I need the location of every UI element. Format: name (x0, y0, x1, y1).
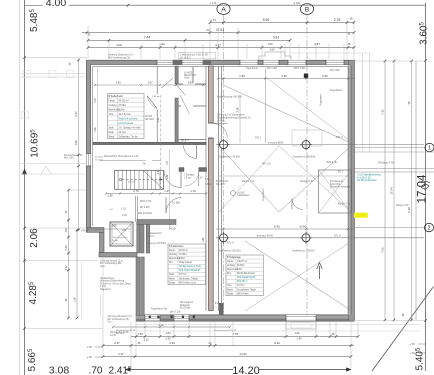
svg-text:DKR 2.76h: DKR 2.76h (140, 201, 152, 203)
svg-text:WK Verblendung CB: WK Verblendung CB (108, 56, 130, 59)
svg-text:Schlusslau, 7th dar: Schlusslau, 7th dar (119, 135, 138, 138)
svg-text:Grabkasten: Grabkasten (237, 194, 250, 197)
annotation endabdeckung (217, 97, 242, 99)
svg-text:76.08m: 76.08m (179, 254, 187, 256)
svg-text:Ger: Ger (108, 321, 112, 324)
ramp diagonals middle (219, 146, 351, 212)
svg-text:23.7cm: 23.7cm (237, 285, 245, 287)
right main dimension line (424, 3, 427, 371)
svg-text:2.47: 2.47 (114, 341, 120, 345)
left outside annotations (100, 259, 123, 268)
svg-text:4.87: 4.87 (314, 42, 320, 46)
chimney outline top (259, 52, 291, 61)
beam axis labels (218, 136, 409, 253)
svg-text:B.OPT 0.6A: B.OPT 0.6A (216, 180, 229, 183)
stair (115, 170, 164, 189)
svg-text:User: User (100, 265, 105, 268)
grabkasten circle note (231, 191, 250, 198)
svg-text:2.36: 2.36 (237, 107, 240, 112)
svg-text:1.45: 1.45 (296, 337, 302, 341)
column B1 (300, 139, 312, 151)
shaft room right (319, 170, 352, 213)
svg-text:49.225 m²: 49.225 m² (119, 99, 129, 102)
svg-text:JK + LB 3: JK + LB 3 (180, 56, 191, 59)
svg-text:Sade: Sade (169, 274, 175, 276)
svg-text:24: 24 (206, 28, 210, 32)
svg-text:8 Kellerraum: 8 Kellerraum (169, 244, 183, 248)
south-west inset wall (99, 253, 137, 258)
svg-text:Umfang: Umfang (169, 254, 178, 256)
svg-text:1.92: 1.92 (294, 331, 300, 335)
svg-text:Umfang: Umfang (227, 265, 236, 267)
dimension 3.60 (right top) (418, 21, 429, 44)
svg-text:14.30: 14.30 (110, 335, 116, 337)
column A1 (218, 139, 230, 151)
room info table 3 (8 Teilgarage) (226, 255, 264, 296)
door corridor-south arc (166, 198, 182, 214)
svg-text:10.695: 10.695 (29, 129, 40, 158)
column A2 (218, 232, 230, 244)
door lower-right of garage arc (292, 199, 303, 210)
central wall pink fill (206, 66, 213, 311)
svg-text:4.32: 4.32 (169, 341, 175, 345)
svg-text:1.52: 1.52 (137, 332, 143, 336)
svg-text:2: 2 (427, 226, 430, 232)
svg-text:abm 1.20n: abm 1.20n (170, 312, 182, 314)
svg-text:DTL 4: DTL 4 (227, 242, 234, 245)
annotation gewerk right-wing top (217, 114, 251, 123)
svg-text:23.7cm: 23.7cm (119, 132, 127, 134)
svg-text:Wand: Wand (227, 289, 234, 291)
grid axis A circle (217, 4, 230, 15)
svg-text:7 Schlage: 7 Schlage (184, 175, 195, 177)
svg-text:+ 70: + 70 (86, 355, 92, 359)
svg-text:Umkl: Umkl (184, 78, 190, 80)
svg-text:10 Fug: 10 Fug (217, 120, 225, 123)
beam line y176 (216, 176, 354, 186)
svg-text:SWF 4.78x: SWF 4.78x (326, 162, 338, 164)
svg-text:Belegnum verregeln: Belegnum verregeln (330, 186, 351, 189)
svg-text:WF 2.60x: WF 2.60x (330, 70, 341, 72)
svg-text:Verabschlung: Verabschlung (100, 277, 115, 280)
beam line axis 2 (216, 237, 424, 239)
svg-text:2.36: 2.36 (239, 74, 245, 78)
svg-text:5.07: 5.07 (94, 97, 97, 102)
svg-text:1.38: 1.38 (107, 194, 113, 198)
svg-text:Schlusslau, Tiefpkt: Schlusslau, Tiefpkt (179, 277, 198, 280)
svg-text:Fugenblech 46+: Fugenblech 46+ (151, 309, 168, 311)
svg-text:KPk OK m: KPk OK m (237, 281, 248, 283)
window sill labels west (95, 157, 104, 162)
lower-left partition walls (136, 196, 177, 316)
svg-text:6.57: 6.57 (74, 111, 78, 117)
roof overhang right (291, 53, 370, 152)
shaft box with cross (110, 222, 133, 246)
svg-text:14.32: 14.32 (239, 352, 247, 356)
svg-text:W Seite by +35 cm das ZWexx: W Seite by +35 cm das ZWexx (100, 282, 132, 285)
svg-text:WK A-Kries: WK A-Kries (237, 292, 249, 295)
svg-text:SWSange 4.78x: SWSange 4.78x (378, 163, 395, 165)
svg-text:Dade: Dade (109, 132, 115, 134)
svg-text:1.03: 1.03 (198, 177, 203, 179)
roof diagonal upper (221, 77, 353, 144)
svg-text:Gehrung Verdorf 12 m: Gehrung Verdorf 12 m (100, 259, 123, 262)
svg-text:1.26: 1.26 (74, 297, 77, 302)
svg-text:W+L:26:0: W+L:26:0 (64, 158, 75, 160)
svg-text:Grabhebene 1/92.80A: Grabhebene 1/92.80A (292, 250, 315, 253)
svg-text:D8a P.0.5/Set: D8a P.0.5/Set (138, 212, 152, 215)
svg-text:1/1.98m: 1/1.98m (172, 203, 180, 205)
svg-text:20 A-Sp.Gm: 20 A-Sp.Gm (119, 113, 131, 116)
svg-text:8.32: 8.32 (274, 225, 280, 229)
outer wall east (348, 60, 355, 320)
svg-text:06.003: 06.003 (145, 116, 153, 118)
svg-text:2.11: 2.11 (157, 169, 160, 174)
svg-text:2.36: 2.36 (281, 74, 287, 78)
dimension 10.69 (left) (29, 129, 40, 158)
svg-text:Grabhebene | 90.80A: Grabhebene | 90.80A (218, 156, 240, 159)
svg-text:Rekg.f.wk.anh.antx: Rekg.f.wk.anh.antx (119, 117, 139, 120)
top dimension row 2 (82, 3, 355, 42)
svg-text:(0.46): (0.46) (300, 225, 307, 229)
annotation top wall code (179, 53, 216, 60)
svg-text:Gehäs-raschen: Gehäs-raschen (113, 236, 129, 239)
svg-text:DALV Rgt: DALV Rgt (330, 183, 340, 186)
partition wall x157 with door (156, 66, 158, 144)
svg-text:Gehrung Infections III m: Gehrung Infections III m (108, 315, 133, 318)
svg-text:a 4.01: a 4.01 (294, 3, 301, 5)
svg-text:Fanne: Fanne (169, 250, 176, 252)
svg-text:FD 1: FD 1 (338, 171, 344, 173)
svg-text:2.26m: 2.26m (179, 258, 185, 260)
right inner dimension chains (381, 60, 413, 322)
svg-text:1.47: 1.47 (164, 189, 170, 193)
right wing west face double line (219, 66, 222, 311)
annotation wall above stair (100, 159, 161, 161)
svg-text:Rekg.f.wk.an: Rekg.f.wk.an (179, 262, 193, 264)
svg-text:Wand: Wand (169, 278, 176, 280)
door labels lower-left (110, 201, 180, 217)
svg-text:Wintabgibat 16:26: Wintabgibat 16:26 (110, 331, 129, 334)
svg-text:2 way: 2 way (100, 286, 107, 288)
svg-text:DTL 3: DTL 3 (336, 136, 343, 139)
svg-text:Fanne: Fanne (109, 100, 116, 102)
left main dimension line (22, 0, 27, 375)
bottom wall labels (110, 301, 194, 337)
svg-text:AB Hoch: AB Hoch (145, 118, 155, 121)
rotated fugenband labels (262, 93, 323, 201)
svg-text:1.00: 1.00 (267, 42, 273, 46)
svg-text:2.47: 2.47 (118, 352, 124, 356)
svg-text:7.32: 7.32 (381, 109, 385, 115)
svg-text:1.88: 1.88 (166, 174, 169, 179)
svg-text:1.18: 1.18 (121, 208, 126, 211)
corridor dashed chain (157, 95, 161, 190)
svg-text:10 WZ5: 10 WZ5 (184, 72, 193, 74)
svg-text:1.61: 1.61 (64, 227, 68, 233)
svg-text:1.00: 1.00 (165, 331, 171, 335)
teal note right (357, 175, 381, 183)
left outside annotation 3 (108, 315, 133, 324)
svg-text:2.28: 2.28 (122, 214, 127, 217)
interior dim row y84 (left wing) (94, 81, 206, 87)
svg-text:Range of W: Range of W (396, 204, 409, 207)
exterior apron bottom (82, 262, 421, 331)
grid axis B circle (300, 4, 313, 15)
svg-text:46.25.08a: 46.25.08a (180, 308, 191, 310)
yellow highlighter mark (354, 213, 368, 218)
svg-text:Maschin FF: Maschin FF (184, 75, 197, 77)
interior dim row y228 (81, 224, 354, 233)
svg-text:6.19: 6.19 (407, 207, 411, 213)
svg-text:8 Teilgarage: 8 Teilgarage (227, 255, 241, 259)
room label top rooms (145, 72, 197, 142)
extension lines top (88, 18, 354, 59)
svg-text:1.30: 1.30 (165, 337, 171, 341)
outer wall bottom (136, 314, 355, 321)
door room2 arc (184, 145, 197, 158)
svg-text:Intonaco BGM: Intonaco BGM (268, 142, 283, 145)
top dimension row 1 (209, 17, 356, 24)
wall right of stair / room2 (179, 168, 207, 186)
svg-text:DIPT 2.60x: DIPT 2.60x (294, 68, 306, 70)
svg-text:Trinkwasserbuf: Trinkwasserbuf (146, 232, 162, 235)
beam wall axis 1 (93, 142, 424, 144)
svg-text:Decke: Decke (169, 282, 176, 284)
svg-text:17.04: 17.04 (417, 174, 429, 203)
svg-text:Endabdeckung | 4G 806: Endabdeckung | 4G 806 (217, 97, 242, 99)
svg-text:26.45 m²: 26.45 m² (179, 249, 188, 252)
svg-text:DK 2.36h: DK 2.36h (140, 207, 150, 209)
svg-text:Yole: Yole (227, 285, 232, 287)
svg-text:+ 70: + 70 (409, 342, 415, 346)
svg-text:PRJF**: PRJF** (181, 140, 189, 143)
svg-text:Fugenband: Fugenband (330, 90, 342, 92)
svg-text:Schlag-Gebog 1-Tiefg: Schlag-Gebog 1-Tiefg (179, 266, 202, 268)
svg-text:Wintergarten: Wintergarten (180, 301, 194, 304)
svg-text:2.26m: 2.26m (119, 109, 125, 111)
rotated chain labels center (202, 95, 240, 242)
left inner dimension chains (64, 59, 80, 320)
door top-left room (147, 96, 157, 109)
section squiggle symbol (421, 182, 430, 189)
svg-text:DTL 1: DTL 1 (255, 137, 262, 140)
svg-text:46.60m: 46.60m (237, 265, 245, 267)
svg-text:prüf.kl.Ksoweit: prüf.kl.Ksoweit (119, 122, 134, 125)
grid axis 1 circle (355, 143, 434, 151)
svg-text:3.08: 3.08 (49, 365, 70, 375)
svg-text:+70-12: +70-12 (81, 230, 89, 233)
interior chain west rooms (94, 68, 98, 143)
svg-text:1.07: 1.07 (147, 81, 153, 85)
svg-text:Umfang: Umfang (109, 105, 118, 107)
svg-text:9.32: 9.32 (274, 341, 280, 345)
garage diagonals lower (245, 241, 352, 311)
svg-text:46.87 m: 46.87 m (146, 236, 154, 238)
svg-text:2.38: 2.38 (64, 245, 68, 251)
skylight box (292, 130, 322, 146)
annotation fensterbrust (64, 154, 83, 160)
svg-text:2.06: 2.06 (29, 228, 40, 248)
svg-text:7.02: 7.02 (381, 247, 385, 253)
annotation top-left wall (108, 54, 133, 60)
svg-text:1.12: 1.12 (157, 117, 160, 122)
door top room B arc (162, 78, 174, 88)
entrance arrow (317, 263, 322, 280)
extension lines left (25, 58, 103, 329)
svg-text:Decke: Decke (227, 293, 234, 295)
svg-text:25.0025: 25.0025 (95, 159, 104, 161)
svg-text:Ranke 7 %: Ranke 7 % (242, 180, 255, 183)
svg-text:1.98: 1.98 (74, 140, 78, 146)
labels under top wall (246, 68, 342, 92)
svg-text:+1.52 Wandabsenkung: +1.52 Wandabsenkung (357, 175, 381, 177)
svg-text:WK A-Kries Q-rm: WK A-Kries Q-rm (179, 281, 196, 284)
svg-text:14x17.5: 14x17.5 (128, 182, 136, 184)
svg-text:1: 1 (428, 146, 431, 152)
svg-text:Mindesthöhe-Hinterdämmen 4.33: Mindesthöhe-Hinterdämmen 4.33 (104, 155, 139, 158)
svg-text:17.61: 17.61 (216, 28, 224, 32)
svg-text:Fugenband: Fugenband (320, 93, 323, 106)
dimension 2.06 (left) (29, 228, 40, 248)
left outside annotation 2 (100, 277, 132, 291)
wall label above stair (104, 155, 146, 165)
svg-text:Fensterbrüst-B 26: Fensterbrüst-B 26 (64, 154, 83, 157)
svg-text:964 x 964: 964 x 964 (267, 68, 278, 70)
svg-text:27.56m: 27.56m (119, 105, 127, 107)
svg-text:1.88: 1.88 (202, 237, 205, 242)
svg-text:+ 70: + 70 (409, 351, 415, 355)
svg-text:1.88 psi: 1.88 psi (152, 96, 160, 98)
svg-text:WK 1,7h: WK 1,7h (262, 163, 272, 165)
top dimension row 3 (87, 42, 356, 52)
extension lines bottom (103, 258, 358, 370)
svg-text:1.43: 1.43 (115, 81, 121, 85)
svg-text:5.50: 5.50 (263, 18, 270, 22)
svg-text:Wunsche Einbeziehung: Wunsche Einbeziehung (100, 281, 125, 283)
svg-text:Drau.nee P.0.5/Set: Drau.nee P.0.5/Set (147, 242, 167, 245)
svg-text:17.04: 17.04 (390, 187, 394, 194)
svg-text:Fugenband: Fugenband (246, 68, 258, 70)
extension lines right (355, 61, 425, 321)
svg-text:Sade: Sade (109, 127, 115, 129)
label 1.13 (215, 303, 220, 305)
svg-text:Grabhebene (90.80A): Grabhebene (90.80A) (293, 156, 315, 159)
svg-text:1pt.Rb Verblendum: 1pt.Rb Verblendum (357, 179, 377, 182)
grid axis 2 circle (355, 223, 434, 231)
partition wall x176 (175, 66, 186, 144)
svg-text:Türe: Türe (109, 113, 114, 116)
svg-text:7.44: 7.44 (144, 36, 151, 40)
room info table 2 (8 Kellerraum) (168, 244, 206, 285)
schlage label (184, 175, 211, 187)
svg-text:L+1.26/+1.26: L+1.26/+1.26 (357, 177, 371, 179)
dimension 5.66 (left bottom) (27, 348, 38, 371)
bottom dimension rows (131, 331, 359, 341)
svg-text:KPk-chgind Pigtail/M: KPk-chgind Pigtail/M (179, 269, 200, 272)
svg-text:Drittelstat: Drittelstat (180, 304, 190, 307)
svg-text:4.02: 4.02 (116, 43, 122, 47)
svg-text:Ranke 7 %: Ranke 7 % (338, 203, 351, 206)
entrance pad bottom (286, 322, 316, 329)
svg-text:4.00: 4.00 (46, 0, 67, 9)
column B0 (square) (304, 74, 308, 78)
svg-text:Grabhebene 1/92.80A: Grabhebene 1/92.80A (218, 250, 241, 253)
svg-text:5.08a: 5.08a (113, 240, 119, 242)
outer wall west (86, 60, 93, 228)
svg-text:1.76: 1.76 (190, 189, 196, 193)
svg-text:DTL 6: DTL 6 (334, 234, 341, 237)
svg-text:+ 4.74: + 4.74 (210, 3, 217, 5)
dimension 4.00 (top, clipped) (25, 0, 426, 9)
svg-text:25.0025: 25.0025 (95, 157, 104, 159)
svg-text:Nagelstein: Nagelstein (100, 288, 112, 291)
svg-text:1.52: 1.52 (64, 265, 68, 271)
svg-text:WK 86.8: WK 86.8 (216, 184, 226, 186)
svg-text:1.05: 1.05 (111, 224, 117, 228)
dimension 5.40 (right bottom) (414, 347, 425, 370)
exterior terrace lines left (20, 71, 87, 175)
outer wall west steps (86, 228, 104, 253)
wall offset dim row y327 (112, 323, 237, 335)
outer wall top (86, 60, 354, 67)
svg-text:2.78: 2.78 (334, 18, 341, 22)
svg-text:+ 74: + 74 (210, 18, 216, 22)
grid axis B line (306, 15, 308, 321)
svg-text:1.80A: 1.80A (205, 183, 211, 186)
small room walls right of corridor (179, 67, 207, 139)
svg-text:B.Kellerbuch: B.Kellerbuch (109, 94, 124, 98)
room info table 1 (B Kellerbuch) (108, 94, 145, 139)
svg-text:KPk-Pigtail Pigt/M: KPk-Pigtail Pigt/M (237, 276, 255, 279)
svg-text:Intonaco 42/46: Intonaco 42/46 (257, 234, 273, 237)
+70 annotations (86, 342, 426, 359)
bottom big labels (49, 365, 260, 375)
svg-text:Range of W: Range of W (300, 180, 314, 183)
svg-text:9.32: 9.32 (273, 36, 279, 40)
svg-text:2.75: 2.75 (133, 189, 139, 193)
svg-text:+ 70: + 70 (86, 345, 92, 349)
svg-text:1.02: 1.02 (269, 48, 275, 52)
svg-text:B Kellerraum: B Kellerraum (330, 180, 343, 183)
svg-text:WK Verblendung CB: WK Verblendung CB (108, 318, 130, 321)
grid axis A line (223, 15, 225, 321)
svg-text:136.87 m²: 136.87 m² (237, 260, 247, 263)
chain x169 (166, 150, 176, 231)
svg-text:1.8 cm: 1.8 cm (184, 177, 191, 179)
svg-text:B: B (305, 6, 309, 13)
svg-text:Fugenband: Fugenband (262, 188, 265, 201)
svg-text:Wand: Wand (109, 136, 116, 138)
door at stair foot arc (164, 171, 181, 188)
svg-text:23.7cm: 23.7cm (179, 274, 187, 276)
dimension 5.48 (left top) (29, 8, 40, 31)
svg-text:.70: .70 (89, 366, 103, 375)
central wall door opening (209, 123, 228, 138)
svg-text:1.12: 1.12 (143, 337, 149, 341)
dimension 4.28 (left) (28, 281, 39, 304)
svg-text:Sockelleiste Tiefpk: Sockelleiste Tiefpk (237, 288, 257, 291)
interior dim row y193 (105, 189, 207, 198)
svg-text:FD.Rk.Bat.Kutsch: FD.Rk.Bat.Kutsch (237, 272, 256, 275)
shaft labels (113, 232, 167, 245)
sheet border left (19, 0, 21, 375)
shaft room note (330, 180, 351, 189)
svg-text:14.20: 14.20 (232, 365, 260, 375)
door sill marks bottom wall (149, 316, 195, 319)
interior thin wall x265 (265, 68, 267, 143)
svg-text:A: A (221, 6, 226, 13)
